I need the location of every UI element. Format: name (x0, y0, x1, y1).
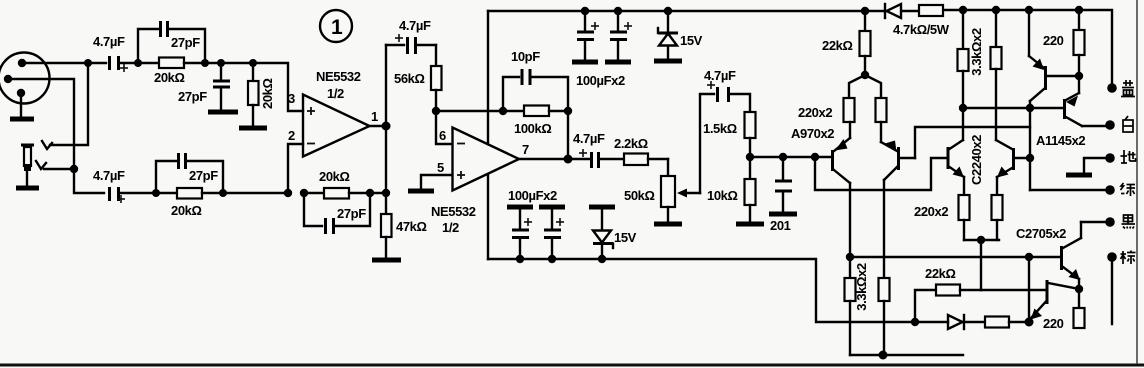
svg-text:4.7µF: 4.7µF (93, 168, 125, 183)
terminal black with wire (1081, 217, 1115, 227)
terminal green (1105, 185, 1115, 195)
label earth hanzi (1121, 150, 1136, 163)
border right of scanned image (1136, 0, 1138, 364)
op-amp U1A NE5532 1/2 (303, 69, 370, 157)
wire XLR pin3 down to jack node (8, 79, 74, 169)
node B junction (70, 165, 78, 173)
node P junction (564, 107, 572, 115)
transistor Q7 C2705 (upper) (1062, 222, 1082, 289)
wire OUT1 vertical (385, 45, 387, 193)
wire node Q to node R (750, 156, 815, 158)
svg-text:5: 5 (437, 160, 444, 175)
svg-text:C2240x2: C2240x2 (969, 135, 984, 185)
capacitor C3 27pF shunt to ground (178, 63, 230, 110)
wire lower switch to node B (44, 168, 74, 170)
label green hanzi (1121, 183, 1136, 196)
resistor R7 100k feedback (514, 106, 568, 137)
wire rail x-node vertical (1029, 108, 1031, 190)
transistor Q5 A1145 (upper) (1029, 10, 1078, 108)
capacitor C15 201 to ground (770, 157, 792, 233)
phone jack J2 (16, 145, 39, 188)
node AF junction (Q7 emitter / Q8 collector) (1075, 285, 1083, 293)
terminal brown with wire (1107, 252, 1117, 324)
ground for C3 (208, 110, 238, 115)
node W3 junction (Q4 base) (1026, 154, 1034, 162)
ground for R5 (372, 258, 401, 263)
svg-text:7: 7 (522, 142, 529, 157)
resistor R17 220 (Q3 emitter) (959, 195, 970, 240)
node G junction (152, 189, 160, 197)
svg-text:22kΩ: 22kΩ (925, 266, 956, 281)
node Y junction (rail) (1025, 6, 1033, 14)
wire positive rail to blue terminal (943, 10, 1112, 84)
svg-text:22kΩ: 22kΩ (822, 38, 853, 53)
node D junction (201, 59, 209, 67)
resistor R2 20k shunt to ground (248, 63, 275, 126)
svg-text:2: 2 (288, 128, 295, 143)
transistor Q6 A1145 (lower) (1030, 76, 1106, 126)
svg-text:10kΩ: 10kΩ (707, 188, 738, 203)
svg-text:100µFx2: 100µFx2 (576, 73, 625, 88)
wire node B down to lower row (74, 169, 104, 193)
capacitor C13 4.7uF output coupling (573, 131, 605, 168)
resistor R22 22k bias lower (915, 266, 981, 322)
svg-text:1: 1 (331, 16, 343, 39)
capacitor C5 27pF (parallel lower) (156, 153, 223, 193)
label blue hanzi (1121, 80, 1135, 97)
node U junction (Q1 base) (811, 153, 819, 161)
svg-text:10pF: 10pF (511, 49, 540, 64)
node I junction (284, 189, 292, 197)
capacitor C4 4.7uF (lower input) (93, 168, 156, 203)
wire emitter resistor bracket to node X (964, 239, 999, 241)
wire node X down to bias node (980, 240, 982, 290)
wire node H to node I (223, 192, 288, 194)
node J junction (300, 189, 308, 197)
node R junction (779, 153, 787, 161)
transistor Q2 A970 (right) (881, 122, 915, 278)
resistor R11 4.7k/5W (893, 5, 950, 37)
resistor R15 3.3k (upper pair left) (958, 10, 969, 140)
svg-text:27pF: 27pF (178, 89, 207, 104)
svg-text:20kΩ: 20kΩ (319, 169, 350, 184)
ground for C10 (605, 60, 631, 65)
wire node F to op-amp pin3 (253, 63, 303, 111)
svg-text:56kΩ: 56kΩ (394, 71, 425, 86)
wire wiper up (700, 94, 714, 193)
resistor R21 3.3k (lower pair right) (879, 278, 890, 355)
wire node M to node N (436, 110, 524, 112)
wire negative line diode to resistor (963, 321, 985, 323)
node M junction (inverting input node) (432, 107, 440, 115)
capacitor C14 4.7uF (704, 68, 736, 102)
node N junction (499, 107, 507, 115)
switch contact lower (jack) (36, 161, 46, 169)
capacitor C9 100uF decoupling (577, 7, 599, 60)
resistor R12 22k bias upper (822, 11, 871, 75)
svg-text:20kΩ: 20kΩ (171, 203, 202, 218)
svg-text:4.7µF: 4.7µF (573, 131, 605, 146)
wire negative rail (488, 259, 948, 322)
label brown hanzi (1121, 251, 1136, 265)
svg-text:1/2: 1/2 (442, 220, 459, 235)
svg-text:4.7µF: 4.7µF (704, 68, 736, 83)
resistor R18 220 (Q4 emitter) (992, 195, 1003, 240)
zener D2 15V bottom (589, 207, 637, 263)
XLR connector J1 (0, 53, 50, 104)
node AB junction (1025, 253, 1033, 261)
wire node AB down to neg line (1028, 257, 1030, 322)
wire op-amp2 output (519, 158, 589, 160)
svg-text:201: 201 (770, 218, 791, 233)
svg-text:1/2: 1/2 (327, 86, 344, 101)
resistor R10 10k to ground (707, 157, 756, 222)
svg-text:220x2: 220x2 (914, 204, 948, 219)
svg-text:20kΩ: 20kΩ (260, 78, 275, 109)
potentiometer VR1 50k (624, 159, 700, 222)
zener D1 15V top (658, 7, 703, 59)
ground for pin5 (408, 189, 434, 194)
circled 1 marker (320, 10, 352, 42)
node C junction (134, 59, 142, 67)
node Y2 junction (rail) (1075, 6, 1083, 14)
transistor Q1 A970 (left) (815, 122, 850, 257)
svg-text:27pF: 27pF (171, 35, 200, 50)
diode D3 on positive rail (885, 4, 901, 18)
svg-text:1: 1 (371, 109, 378, 124)
wire node I up to op-amp pin2 (288, 144, 303, 193)
terminal white (1105, 120, 1115, 130)
node AA junction (Q1 collector) (846, 253, 854, 261)
node Z junction (Q5 base / Q6 emitter) (1075, 72, 1083, 80)
svg-text:C2705x2: C2705x2 (1016, 226, 1066, 241)
diode D4 bias lower (948, 315, 964, 329)
wire node P down to output (567, 111, 569, 159)
wire op-amp2 V+ lead (487, 11, 489, 144)
node V2 junction (rail drop for R16) (992, 6, 1000, 14)
node AC junction (879, 351, 888, 360)
capacitor C6 27pF feedback (304, 193, 370, 234)
svg-text:220: 220 (1043, 33, 1064, 48)
svg-text:220x2: 220x2 (798, 105, 832, 120)
node F junction (249, 59, 257, 67)
wire node K to node L (370, 192, 386, 194)
node E junction (217, 59, 225, 67)
resistor R1 20k (series upper) (138, 58, 205, 86)
svg-text:A1145x2: A1145x2 (1036, 133, 1085, 148)
switch contact upper (jack) (42, 141, 52, 149)
capacitor C10 100uF decoupling (610, 7, 632, 60)
svg-text:3.3kΩx2: 3.3kΩx2 (969, 28, 984, 76)
wire op-amp1 output (369, 125, 386, 127)
transistor Q3 C2240 (left) (948, 140, 964, 195)
wire Q1 base down and right to Q3 base (815, 157, 947, 190)
svg-text:6: 6 (439, 128, 446, 143)
node A junction (84, 59, 92, 67)
svg-text:47kΩ: 47kΩ (396, 219, 427, 234)
wire positive rail right segment (902, 10, 919, 12)
wire cap to R9 (730, 94, 750, 112)
transistor Q4 C2240 (right) (996, 140, 1029, 195)
svg-text:NE5532: NE5532 (316, 69, 361, 84)
node W1 junction (959, 104, 967, 112)
svg-text:4.7µF: 4.7µF (93, 34, 125, 49)
wire node W1 to node W2 (963, 107, 1030, 109)
wire node D to node E (205, 62, 253, 64)
svg-text:15V: 15V (680, 33, 703, 48)
capacitor C2 27pF (parallel upper) (138, 21, 205, 63)
terminal earth with ground (1066, 153, 1115, 175)
node K junction (366, 189, 374, 197)
wire lower rail tap to C2705 base (850, 256, 1061, 258)
capacitor C12 100uF decoupling (neg) (539, 207, 565, 263)
svg-text:20kΩ: 20kΩ (154, 70, 185, 85)
ground for R10 (736, 222, 764, 227)
svg-text:100µFx2: 100µFx2 (508, 188, 557, 203)
svg-text:2.2kΩ: 2.2kΩ (614, 136, 648, 151)
node OUT2 junction (564, 155, 573, 164)
transistor Q8 C2705 (lower) (981, 280, 1079, 320)
node X junction (977, 236, 985, 244)
node W2 junction (1026, 104, 1034, 112)
resistor R6 56k (394, 45, 442, 111)
resistor R23 bias lower (985, 317, 1029, 328)
svg-text:100kΩ: 100kΩ (514, 121, 551, 136)
wire node M to op-amp2 pin6 (436, 111, 452, 144)
svg-text:3: 3 (288, 91, 295, 106)
svg-text:3.3kΩx2: 3.3kΩx2 (854, 263, 869, 311)
svg-text:1.5kΩ: 1.5kΩ (703, 121, 737, 136)
svg-text:15V: 15V (614, 230, 637, 245)
op-amp U1B NE5532 1/2 (431, 128, 519, 236)
wire upper switch to node A (50, 63, 88, 145)
capacitor C11 100uF decoupling (neg) (507, 207, 533, 263)
svg-text:4.7µF: 4.7µF (399, 18, 431, 33)
svg-text:220: 220 (1043, 316, 1064, 331)
node AD junction (911, 318, 919, 326)
ground for VR1 (654, 222, 682, 227)
svg-text:27pF: 27pF (337, 206, 366, 221)
resistor R5 47k to ground (381, 193, 427, 258)
wire positive rail (488, 10, 884, 12)
node L junction (382, 189, 390, 197)
ground for D1 (654, 59, 682, 64)
ground for C9 (572, 60, 598, 65)
resistor R4 20k feedback (304, 169, 370, 199)
node T junction (861, 71, 869, 79)
svg-text:A970x2: A970x2 (791, 126, 834, 141)
resistor R14 220 (emitter T2) (876, 98, 887, 122)
node V1 junction (rail drop for R15) (959, 6, 967, 14)
node H junction (219, 189, 227, 197)
node Q junction (driver input node) (746, 153, 754, 161)
svg-text:4.7kΩ/5W: 4.7kΩ/5W (893, 22, 950, 37)
wire Q2 base up to node W rail (915, 127, 1030, 158)
resistor R24 220 (output lower) (1043, 289, 1085, 331)
svg-text:50kΩ: 50kΩ (624, 188, 655, 203)
resistor R3 20k (series lower) (156, 188, 223, 218)
terminal blue (1107, 83, 1117, 93)
wire XLR pin2 to node A (22, 62, 88, 64)
ground XLR pin1 (10, 93, 34, 119)
resistor R16 3.3k (upper pair right) (991, 10, 1002, 140)
wire op-amp2 V- lead (487, 175, 489, 259)
wire op-amp2 pin5 to ground (421, 175, 452, 189)
resistor R20 3.3k (lower pair left) (845, 257, 856, 355)
node AE junction (1025, 318, 1034, 327)
capacitor C8 10pF feedback (503, 49, 568, 111)
wire node to green terminal (1030, 189, 1107, 191)
svg-text:NE5532: NE5532 (431, 204, 476, 219)
capacitor C7 4.7uF interstage (386, 18, 436, 54)
resistor R9 1.5k (703, 112, 756, 157)
wire lower join line (850, 354, 963, 356)
capacitor C1 4.7uF (upper input) (88, 34, 138, 72)
ground for C15 (769, 212, 797, 217)
label white hanzi (1123, 116, 1133, 132)
svg-text:27pF: 27pF (189, 168, 218, 183)
resistor R19 220 (Q5 base) (1043, 10, 1085, 76)
wire bracket to emitter resistors (849, 75, 881, 98)
resistor R8 2.2k (600, 136, 668, 165)
node OUT1 junction (382, 122, 391, 131)
label black hanzi (1122, 215, 1136, 229)
resistor R13 220 (emitter T1) (844, 98, 855, 122)
border bottom of scanned image (0, 364, 1144, 367)
node S junction (rail tap) (861, 7, 869, 15)
ground for R2 (239, 126, 267, 131)
